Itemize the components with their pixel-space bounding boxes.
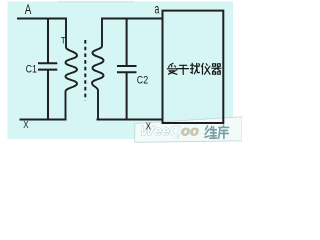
wire: bottom right horizontal [97,119,163,121]
transformer core dashed line [84,40,86,101]
svg-text:T: T [61,36,66,46]
transformer T primary winding [66,18,78,120]
wire: bottom left horizontal [20,119,67,121]
wire: C1 branch vertical top [47,18,49,63]
capacitor C2 [117,66,137,72]
svg-text:a: a [155,1,160,16]
wire: C2 branch vertical bottom [126,73,128,120]
instrument label 器 [212,64,221,74]
watermark band [135,117,242,143]
watermark CJK 维 [205,126,217,138]
svg-text:X: X [146,120,151,132]
svg-text:C2: C2 [137,74,148,86]
instrument box (受干扰仪器) [163,11,224,123]
instrument label 扰 [191,63,200,74]
wire: top left horizontal (A to transformer) [17,18,67,20]
instrument label 干 [178,65,188,74]
instrument label 仪 [202,63,210,74]
scan cyan area [8,2,234,140]
watermark CJK 库 [219,125,229,138]
svg-text:X: X [23,119,28,131]
instrument label 受 [167,63,177,74]
wire: C1 branch vertical bottom [47,70,49,120]
svg-text:C1: C1 [26,63,37,75]
wire: C2 branch vertical top [126,18,128,66]
paper background [0,0,242,144]
scan smudge top [58,1,134,2]
wire: top right horizontal (transformer to box) [101,18,163,20]
capacitor C1 [38,63,57,69]
svg-text:A: A [25,2,32,17]
transformer T secondary winding [92,18,104,120]
